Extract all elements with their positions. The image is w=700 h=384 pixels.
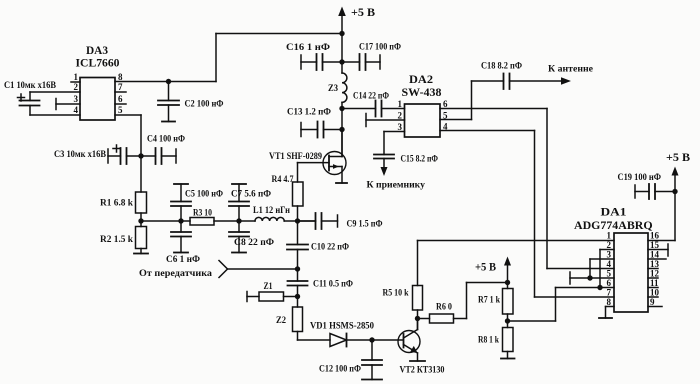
capacitor C10 <box>297 221 299 245</box>
svg-text:C3 10мк х16В: C3 10мк х16В <box>54 150 107 160</box>
pin 2 DA1 wire <box>600 249 614 251</box>
svg-text:C19 100 нФ: C19 100 нФ <box>618 173 662 183</box>
capacitor C18 <box>503 74 505 90</box>
svg-text:C6 1 нФ: C6 1 нФ <box>166 255 200 265</box>
ground VT2 emitter <box>410 360 425 362</box>
svg-text:C12 100 пФ: C12 100 пФ <box>319 365 361 375</box>
svg-text:C13 1.2 пФ: C13 1.2 пФ <box>287 108 331 118</box>
inductor Z3 <box>342 73 347 102</box>
pin 6 DA3 stub <box>115 103 126 105</box>
node C7/C8 junction <box>236 218 241 223</box>
stripline Z1 <box>246 292 248 302</box>
ground DA1 pin8 <box>599 317 612 319</box>
svg-text:2: 2 <box>74 82 79 92</box>
wire to VT2 base <box>372 339 403 341</box>
svg-text:К приемнику: К приемнику <box>367 181 426 191</box>
resistor R6 <box>418 318 430 320</box>
svg-text:C15 8.2 пФ: C15 8.2 пФ <box>401 155 439 165</box>
+5V rail right <box>674 173 676 241</box>
pin 7 DA3 stub <box>115 91 126 93</box>
pin 4 DA3 wire <box>30 114 80 116</box>
node rail/DA3 wire <box>339 31 344 36</box>
node rail/C13 <box>339 127 344 132</box>
node VD1/C12 junction <box>369 337 374 342</box>
capacitor C9 <box>298 220 316 222</box>
diode VD1 <box>330 334 347 347</box>
capacitor C3 <box>107 149 109 163</box>
input connector from transmitter <box>219 261 228 278</box>
svg-text:DA1: DA1 <box>601 205 627 219</box>
svg-text:16: 16 <box>650 231 660 241</box>
svg-text:C8 22 пФ: C8 22 пФ <box>234 238 274 248</box>
svg-text:7: 7 <box>118 82 123 92</box>
svg-text:R7 1 k: R7 1 k <box>478 296 501 306</box>
pin 16 DA1 wire <box>648 240 675 242</box>
capacitor C16 <box>300 55 302 69</box>
svg-text:Z1: Z1 <box>264 282 273 292</box>
+5V arrow mid <box>507 263 509 283</box>
pin 9 DA1 stub <box>648 306 662 308</box>
svg-text:R1 6.8 k: R1 6.8 k <box>100 199 134 209</box>
svg-text:5: 5 <box>118 105 123 115</box>
pin 11 DA1 stub <box>648 287 658 289</box>
capacitor C8 <box>238 221 240 232</box>
pin 5 DA2 wire <box>440 119 472 121</box>
svg-text:2: 2 <box>607 240 612 250</box>
svg-text:3: 3 <box>607 250 612 260</box>
node pin8/C2 junction <box>166 79 171 84</box>
node R7 top <box>505 280 510 285</box>
svg-text:C5 100 нФ: C5 100 нФ <box>185 190 223 200</box>
pin 14 DA1 stub <box>648 258 666 260</box>
svg-text:9: 9 <box>650 297 655 307</box>
capacitor C2 <box>168 82 170 101</box>
ground below C12 <box>362 379 382 381</box>
wire pin5 DA2 to C18 <box>471 81 473 120</box>
svg-text:6: 6 <box>607 278 612 288</box>
IC DA1 ADG774ABRQ body <box>614 233 648 312</box>
svg-text:14: 14 <box>650 250 660 260</box>
resistor R4 <box>297 206 299 221</box>
capacitor C11 <box>297 269 299 281</box>
wire R5 to DA1 pin1 <box>417 241 419 286</box>
svg-text:3: 3 <box>398 122 403 132</box>
svg-text:C4 100 нФ: C4 100 нФ <box>147 135 185 145</box>
pin 6 DA1 wire <box>556 287 615 289</box>
transistor VT1 <box>323 152 346 175</box>
svg-text:R8 1 k: R8 1 k <box>478 336 500 346</box>
arrow to receiver <box>381 167 388 176</box>
transistor VT2 <box>398 331 420 353</box>
svg-text:VT1 SHF-0289: VT1 SHF-0289 <box>269 152 322 162</box>
svg-text:+5 В: +5 В <box>666 150 690 164</box>
pin 12 DA1 stub <box>648 277 658 279</box>
svg-text:1: 1 <box>74 72 79 82</box>
svg-text:8: 8 <box>607 297 612 307</box>
svg-text:7: 7 <box>607 288 612 298</box>
wire pin8 DA3 to +5V rail <box>115 81 216 83</box>
ground below R8 <box>501 358 515 360</box>
svg-text:10: 10 <box>650 288 660 298</box>
pin 3 DA3 wire <box>56 103 80 105</box>
capacitor C5 <box>180 206 182 221</box>
svg-text:VT2 КТ3130: VT2 КТ3130 <box>400 366 445 376</box>
node pin2/pin6 <box>597 285 602 290</box>
svg-text:C9 1.5 пФ: C9 1.5 пФ <box>347 220 383 230</box>
capacitor C19 <box>634 185 636 198</box>
pin 10 DA1 stub <box>648 296 658 298</box>
inductor L1 <box>255 217 284 221</box>
C3 plus sign <box>113 145 120 152</box>
svg-text:R5 10 k: R5 10 k <box>383 289 410 299</box>
node rail/C16 C17 <box>339 59 344 64</box>
svg-text:4: 4 <box>607 259 612 269</box>
arrow to antenna <box>561 77 571 85</box>
capacitor C7 <box>238 206 240 221</box>
svg-text:C11 0.5 пФ: C11 0.5 пФ <box>313 280 353 290</box>
resistor R2 <box>136 227 147 249</box>
pin 2 DA3 wire <box>30 91 80 93</box>
svg-text:5: 5 <box>607 269 612 279</box>
capacitor C12 <box>371 340 373 360</box>
svg-text:L1 12 нГн: L1 12 нГн <box>253 206 290 216</box>
capacitor C13 <box>300 123 302 137</box>
IC DA3 ICL7660 body <box>80 78 115 121</box>
svg-text:VD1 HSMS-2850: VD1 HSMS-2850 <box>310 322 374 332</box>
svg-text:C16 1 нФ: C16 1 нФ <box>286 43 330 53</box>
svg-text:2: 2 <box>398 111 403 121</box>
node rail/C14 pin1 <box>339 106 344 111</box>
+5V rail top <box>341 13 343 73</box>
pin 5 DA1 wire with terminal <box>570 277 614 279</box>
svg-text:C14 22 пФ: C14 22 пФ <box>353 92 389 102</box>
capacitor C6 <box>180 221 182 232</box>
svg-text:6: 6 <box>443 99 448 109</box>
node R4/C10 junction <box>295 218 300 223</box>
pin 6 DA2 wire <box>440 108 547 110</box>
node C19 junction <box>672 189 677 194</box>
ground VT1 source <box>336 182 347 184</box>
svg-text:К антенне: К антенне <box>548 65 593 75</box>
wire pin5 DA3 down <box>115 114 141 116</box>
svg-text:3: 3 <box>74 94 79 104</box>
svg-text:C2 100 нФ: C2 100 нФ <box>185 100 224 110</box>
node C3/C4 junction <box>138 153 143 158</box>
pin 1 DA3 stub <box>71 81 80 83</box>
node R7/R8 junction <box>505 318 510 323</box>
+5V arrow top <box>338 7 346 17</box>
pin 3 DA2 wire <box>384 131 405 133</box>
svg-text:+5 В: +5 В <box>475 260 496 274</box>
node pin3/pin5 <box>587 275 592 280</box>
svg-text:C10 22 пФ: C10 22 пФ <box>311 243 349 253</box>
svg-text:ADG774ABRQ: ADG774ABRQ <box>574 218 653 232</box>
stripline Z2 <box>297 297 299 308</box>
svg-text:4: 4 <box>74 105 79 115</box>
pin 2 DA2 wire with terminal <box>366 119 405 121</box>
svg-text:Z2: Z2 <box>276 316 286 326</box>
ground below R2 <box>134 253 148 255</box>
svg-text:От передатчика: От передатчика <box>139 269 212 279</box>
svg-text:12: 12 <box>650 269 660 279</box>
svg-text:13: 13 <box>650 259 660 269</box>
svg-text:5: 5 <box>443 111 448 121</box>
ground below C2 <box>162 121 175 123</box>
C1 plus sign <box>18 94 25 101</box>
svg-text:R4 4.7: R4 4.7 <box>272 175 294 185</box>
pin 3 DA1 wire <box>590 258 614 260</box>
wire main line y=221 <box>141 220 190 222</box>
node Z1 junction <box>295 294 300 299</box>
svg-text:C18 8.2 пФ: C18 8.2 пФ <box>481 62 522 72</box>
capacitor C1 <box>29 92 31 101</box>
IC DA2 SW-438 body <box>405 104 441 137</box>
svg-text:C1 10мк х16В: C1 10мк х16В <box>4 81 57 91</box>
node C5/C6 junction <box>178 218 183 223</box>
pin 8 DA1 wire to ground <box>606 306 615 308</box>
svg-text:C7 5.6 пФ: C7 5.6 пФ <box>231 190 271 200</box>
svg-text:DA2: DA2 <box>409 72 433 86</box>
svg-text:ICL7660: ICL7660 <box>76 56 120 70</box>
svg-text:6: 6 <box>118 94 123 104</box>
svg-text:8: 8 <box>118 72 123 82</box>
svg-text:1: 1 <box>607 231 612 241</box>
svg-text:1: 1 <box>398 99 403 109</box>
resistor R7 <box>503 289 514 315</box>
capacitor C17 <box>342 61 360 63</box>
pin 3 DA3 terminal bar <box>55 99 57 110</box>
svg-text:4: 4 <box>443 122 448 132</box>
resistor R5 <box>415 316 420 321</box>
svg-text:R2 1.5 k: R2 1.5 k <box>100 235 134 245</box>
svg-text:Z3: Z3 <box>328 84 338 94</box>
pin 4 DA2 wire <box>440 130 535 132</box>
node R1/R2 junction <box>138 218 143 223</box>
node input junction <box>295 266 300 271</box>
capacitor C15 <box>383 132 385 155</box>
resistor R3 <box>190 218 214 226</box>
svg-text:R3 10: R3 10 <box>193 209 212 219</box>
svg-text:15: 15 <box>650 240 660 250</box>
svg-text:+5 В: +5 В <box>351 5 375 19</box>
svg-text:11: 11 <box>650 278 659 288</box>
svg-text:R6 0: R6 0 <box>436 303 452 313</box>
capacitor C4 <box>141 155 156 157</box>
pin 13 DA1 stub <box>648 268 658 270</box>
wire pin6 DA2 to DA1 pin4 <box>546 109 548 269</box>
resistor R8 <box>503 328 514 352</box>
pin 15 DA1 wire with terminal <box>648 249 668 251</box>
svg-text:C17 100 пФ: C17 100 пФ <box>359 43 401 53</box>
resistor R1 <box>136 192 147 213</box>
svg-text:SW-438: SW-438 <box>402 85 442 99</box>
capacitor C14 <box>342 108 376 110</box>
wire R7/R8 junction to DA1 pin6 <box>508 320 556 322</box>
wire pin4 DA2 to DA1 pin7 <box>534 131 536 298</box>
